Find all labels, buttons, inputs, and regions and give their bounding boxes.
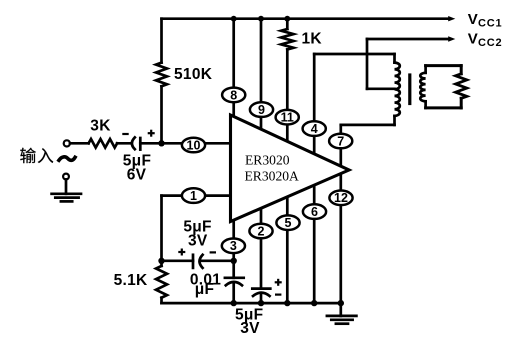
- svg-text:3: 3: [230, 239, 237, 253]
- svg-text:6V: 6V: [127, 167, 147, 184]
- svg-text:10: 10: [187, 138, 201, 152]
- svg-text:V: V: [468, 31, 478, 48]
- svg-text:4: 4: [311, 122, 318, 136]
- svg-text:7: 7: [337, 134, 344, 148]
- svg-text:8: 8: [230, 88, 237, 102]
- svg-text:11: 11: [281, 111, 294, 125]
- svg-text:3V: 3V: [188, 233, 208, 250]
- svg-text:3V: 3V: [240, 320, 260, 337]
- svg-text:6: 6: [311, 205, 318, 219]
- svg-text:1K: 1K: [302, 31, 323, 48]
- svg-text:V: V: [468, 11, 478, 28]
- svg-text:ER3020A: ER3020A: [245, 169, 300, 184]
- svg-text:3K: 3K: [90, 118, 111, 135]
- svg-text:1: 1: [190, 189, 197, 203]
- svg-text:510K: 510K: [174, 66, 213, 83]
- svg-text:5.1K: 5.1K: [114, 272, 148, 289]
- svg-text:2: 2: [258, 224, 265, 238]
- svg-text:9: 9: [258, 103, 265, 117]
- svg-text:CC2: CC2: [478, 37, 502, 49]
- svg-text:12: 12: [334, 191, 348, 205]
- svg-text:μF: μF: [195, 281, 215, 298]
- svg-text:5: 5: [285, 216, 292, 230]
- svg-text:ER3020: ER3020: [245, 153, 290, 168]
- svg-text:CC1: CC1: [478, 18, 502, 30]
